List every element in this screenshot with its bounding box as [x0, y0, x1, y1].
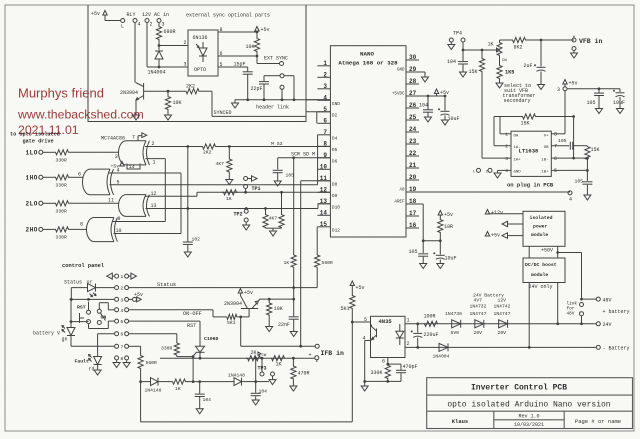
- Nano pin5-6 link: [316, 112, 318, 124]
- opto pin8 stub: [218, 27, 257, 33]
- svg-text:A0: A0: [399, 189, 405, 193]
- svg-text:1LO: 1LO: [26, 150, 38, 157]
- resistor 2K2 (M S3): [202, 144, 216, 156]
- label Status (row2): [157, 282, 176, 288]
- Nano left pins: [317, 60, 340, 234]
- svg-text:7: 7: [132, 135, 135, 141]
- watermark date: [18, 123, 79, 137]
- svg-text:10/03/2021: 10/03/2021: [514, 422, 544, 428]
- svg-text:TP1: TP1: [252, 186, 261, 192]
- capacitor 470pF: [388, 364, 418, 381]
- label control panel: [62, 263, 105, 269]
- resistor 1K (D9): [222, 190, 238, 202]
- net row6 fault: [129, 333, 177, 335]
- svg-text:680R: 680R: [164, 29, 176, 35]
- power +12v arrow: [485, 210, 523, 217]
- svg-text:24V only: 24V only: [529, 284, 553, 290]
- test point TP2: [234, 209, 249, 225]
- LT1638 pin1: [500, 132, 511, 138]
- svg-text:3: 3: [557, 87, 560, 93]
- diode 1N4004: [148, 46, 166, 76]
- svg-text:1N4732: 1N4732: [470, 304, 487, 310]
- resistor 330K: [371, 364, 391, 383]
- svg-text:5K1: 5K1: [227, 320, 236, 326]
- svg-text:2: 2: [152, 141, 155, 147]
- svg-text:+5VDC: +5VDC: [392, 93, 405, 97]
- capacitor 104 (SCR): [195, 382, 211, 409]
- svg-text:L: L: [121, 24, 124, 30]
- svg-text:104: 104: [259, 389, 268, 395]
- resistor 10K (Q1 base): [165, 91, 181, 110]
- power +5v (opto pullup): [255, 27, 270, 34]
- transistor Q2 2N3904: [224, 296, 259, 309]
- wire battery led: [70, 298, 89, 346]
- svg-text:secondary: secondary: [504, 98, 531, 104]
- gate1 in1 wire: [146, 159, 166, 222]
- ground (105 plug): [596, 109, 603, 114]
- resistor 680R: [156, 23, 175, 41]
- svg-text:CW: CW: [502, 59, 507, 63]
- gate4 in10 wire: [114, 228, 182, 234]
- svg-text:D2: D2: [332, 112, 338, 118]
- 4N35 phototransistor: [372, 325, 377, 341]
- svg-text:SCR SD M: SCR SD M: [291, 151, 315, 157]
- ground (Q1 emitter): [133, 115, 140, 120]
- diode 1N4148 (b): [228, 373, 269, 386]
- svg-text:2LO: 2LO: [26, 201, 38, 208]
- grounds row8: [113, 360, 130, 367]
- gate4 out label 8: [80, 222, 83, 228]
- svg-text:1K: 1K: [175, 386, 181, 392]
- power +5v (pin27): [434, 89, 449, 96]
- svg-text:4: 4: [138, 22, 141, 28]
- label IFB in: [321, 350, 345, 357]
- capacitor 22pF: [251, 76, 270, 100]
- svg-text:10R: 10R: [444, 224, 453, 230]
- svg-text:www.thebackshed.com: www.thebackshed.com: [17, 108, 144, 122]
- svg-text:1A+: 1A+: [514, 158, 522, 162]
- xor gate U2A: [119, 141, 150, 165]
- zener 1N4747a: [470, 298, 487, 336]
- svg-text:+5v: +5v: [244, 290, 253, 296]
- svg-text:9: 9: [118, 216, 121, 222]
- wire 4K7 commons: [266, 228, 282, 231]
- label to opto isolated: [10, 132, 60, 138]
- svg-text:1: 1: [153, 160, 156, 166]
- 4N35 pin4: [363, 336, 371, 383]
- svg-text:D6: D6: [332, 158, 338, 164]
- svg-text:330R: 330R: [56, 158, 67, 164]
- module return arrow: [502, 221, 523, 227]
- svg-text:1: 1: [505, 132, 508, 138]
- svg-text:battery V: battery V: [33, 331, 60, 337]
- label MC74AC86: [101, 136, 125, 142]
- svg-text:1N4004: 1N4004: [148, 70, 166, 76]
- svg-text:330R: 330R: [56, 209, 67, 215]
- svg-text:2K2: 2K2: [186, 84, 195, 90]
- header link pins: [264, 74, 294, 100]
- capacitor 105 (SCR SD): [273, 158, 294, 181]
- LED Fault: [75, 355, 102, 373]
- pin L (RLY coil): [121, 19, 125, 30]
- ground (sync rail): [232, 100, 239, 108]
- svg-text:100R: 100R: [424, 314, 436, 320]
- boost input wires: [528, 283, 559, 349]
- capacitor 15pF: [234, 62, 253, 100]
- svg-text:1N4004: 1N4004: [433, 354, 450, 360]
- svg-text:15K: 15K: [469, 69, 478, 75]
- resistor 560R (D12): [315, 227, 333, 288]
- svg-text:5: 5: [220, 62, 223, 68]
- power +5v (Q2): [238, 289, 253, 297]
- svg-text:10uF: 10uF: [613, 100, 625, 106]
- Nano pin29 GND wire: [406, 72, 425, 77]
- svg-text:ON-OFF: ON-OFF: [183, 311, 202, 317]
- ground (fault led): [94, 370, 101, 375]
- capacitor 105 (AREF): [409, 241, 429, 264]
- svg-text:102: 102: [192, 237, 201, 243]
- diode 1N4148 (a): [141, 378, 170, 394]
- svg-text:+5v: +5v: [356, 285, 365, 291]
- wire pin2 down: [147, 23, 159, 68]
- ground (104 VFB): [460, 72, 467, 77]
- label Atmega 168 or 328: [338, 60, 398, 67]
- capacitor 2uF: [524, 40, 546, 85]
- svg-text:330K: 330K: [371, 370, 383, 376]
- label SYNCED: [214, 110, 232, 116]
- gate2 in4 wire: [109, 168, 181, 234]
- capacitor 104 (VFB): [447, 50, 468, 72]
- net Status wire: [129, 287, 317, 289]
- svg-text:1B+: 1B+: [541, 171, 549, 175]
- capacitor 104 (5V rail): [419, 96, 433, 117]
- net +5v panel: [71, 298, 114, 301]
- switch RST: [77, 302, 91, 324]
- IC Nano box: [330, 46, 406, 237]
- pin IFB in upper: [239, 316, 319, 349]
- gate1 pin7 flag: [132, 133, 147, 141]
- wire 4N35 gnd node: [365, 381, 388, 386]
- net A0: [419, 191, 572, 203]
- svg-text:MC74AC86: MC74AC86: [101, 136, 125, 142]
- label NANO: [360, 51, 374, 58]
- svg-text:4: 4: [117, 168, 120, 174]
- svg-text:to opto isolated: to opto isolated: [10, 132, 60, 138]
- resistor 470R: [291, 358, 310, 386]
- svg-text:560R: 560R: [322, 260, 333, 266]
- svg-text:gn: gn: [62, 337, 68, 343]
- svg-text:on plug in PCB: on plug in PCB: [507, 182, 554, 189]
- svg-text:V+: V+: [544, 135, 549, 139]
- svg-text:7: 7: [120, 344, 123, 350]
- svg-text:Page # or name: Page # or name: [575, 418, 621, 425]
- resistor 560R (panel): [138, 346, 157, 383]
- title Inverter Control PCB: [471, 384, 567, 393]
- svg-text:2: 2: [150, 22, 153, 28]
- svg-text:330R: 330R: [161, 346, 172, 352]
- pin EXT SYNC: [280, 62, 284, 66]
- svg-text:+5v: +5v: [91, 11, 100, 17]
- ground (105): [274, 181, 281, 186]
- svg-text:NANO: NANO: [360, 51, 374, 58]
- svg-text:gate drive: gate drive: [23, 139, 54, 145]
- label 12V AC in: [142, 12, 169, 18]
- wire RST bottom: [89, 324, 109, 329]
- svg-text:RST: RST: [187, 323, 196, 329]
- svg-text:+5v: +5v: [569, 81, 578, 87]
- label SCR SD M: [291, 151, 315, 157]
- svg-text:control panel: control panel: [62, 263, 105, 269]
- label 24V Battery: [473, 292, 504, 298]
- LED Status: [71, 284, 114, 297]
- svg-text:VFB in: VFB in: [579, 38, 603, 45]
- svg-text:6: 6: [554, 156, 557, 162]
- svg-text:GND: GND: [397, 69, 405, 73]
- svg-text:3: 3: [184, 62, 187, 68]
- 4N35 pin1: [405, 318, 596, 324]
- svg-text:8: 8: [80, 222, 83, 228]
- power +5v (RLY): [91, 11, 121, 21]
- svg-text:20V: 20V: [474, 330, 483, 336]
- resistor 15K (feedback): [500, 114, 575, 134]
- svg-text:module: module: [531, 272, 548, 278]
- ground (104 IFB): [252, 400, 259, 405]
- svg-text:1K: 1K: [488, 42, 494, 48]
- pin 1HO: [26, 175, 43, 182]
- svg-text:6: 6: [120, 332, 123, 338]
- svg-text:5: 5: [554, 168, 557, 174]
- svg-text:+5v: +5v: [444, 212, 453, 218]
- ground (4K7 pair): [270, 231, 277, 236]
- resistor 330R (2LO): [43, 201, 119, 215]
- svg-text:6V0: 6V0: [451, 330, 460, 336]
- svg-text:6: 6: [220, 51, 223, 57]
- svg-text:105: 105: [587, 100, 596, 106]
- 4N35 pin5: [352, 317, 370, 323]
- svg-text:8K2: 8K2: [514, 45, 523, 51]
- SCR gate wire: [177, 353, 196, 358]
- wire pot to diode line: [255, 358, 257, 381]
- svg-text:10K: 10K: [173, 100, 182, 106]
- svg-text:D5: D5: [332, 147, 338, 153]
- resistor 2K2 (sync): [185, 84, 200, 94]
- svg-text:24V: 24V: [603, 322, 612, 328]
- svg-text:SYNCED: SYNCED: [214, 110, 232, 116]
- svg-text:5K1: 5K1: [341, 306, 350, 312]
- SCR C106D: [196, 336, 219, 360]
- switch ON: [97, 303, 106, 325]
- svg-text:8: 8: [220, 27, 223, 33]
- DC/DC boost module: [523, 258, 565, 283]
- test point TP3: [258, 366, 275, 380]
- watermark URL: [17, 108, 144, 122]
- svg-text:external sync optional parts: external sync optional parts: [186, 13, 270, 19]
- svg-text:330R: 330R: [56, 235, 67, 241]
- svg-text:15K: 15K: [521, 121, 530, 127]
- svg-text:4: 4: [569, 197, 572, 203]
- svg-text:1K: 1K: [284, 260, 290, 266]
- resistor 4K7 (D9 pulldown): [279, 192, 284, 228]
- svg-text:1N4148: 1N4148: [145, 388, 162, 394]
- svg-text:D9: D9: [332, 193, 338, 199]
- power +5v arrow (module): [485, 232, 523, 239]
- svg-text:2uF: 2uF: [524, 63, 533, 69]
- LT1638 pin5: [551, 168, 589, 174]
- net D10 (TP2): [245, 204, 331, 210]
- svg-text:1B-: 1B-: [541, 158, 548, 162]
- ground (10uF AREF): [437, 264, 444, 269]
- pin IFB in lower: [309, 353, 319, 363]
- svg-text:48V: 48V: [603, 297, 612, 303]
- ground (1K5): [496, 83, 503, 88]
- svg-text:13: 13: [151, 203, 157, 209]
- svg-text:1K5: 1K5: [505, 70, 514, 76]
- net SCR cathode rail: [160, 357, 315, 360]
- capacitor 220uF: [411, 324, 439, 349]
- svg-text:220uF: 220uF: [424, 332, 439, 338]
- svg-text:104: 104: [419, 103, 428, 109]
- title block frame: [427, 378, 633, 429]
- svg-text:3: 3: [115, 154, 118, 160]
- svg-text:2: 2: [407, 341, 410, 347]
- title Klaus: [452, 418, 469, 425]
- svg-text:560R: 560R: [146, 360, 157, 366]
- svg-text:8: 8: [554, 132, 557, 138]
- capacitor 105 (opamp): [558, 138, 587, 150]
- resistor 1K (IFB): [271, 356, 285, 368]
- gate3 out label 11: [108, 198, 114, 204]
- wire status led return: [70, 288, 73, 301]
- svg-text:Rev 1.0: Rev 1.0: [518, 414, 539, 420]
- LED battery V: [33, 326, 75, 343]
- power +5v (LT1638): [563, 80, 578, 87]
- optocoupler U1 6N136: [188, 30, 218, 76]
- label 24V only: [529, 284, 553, 290]
- ground (4K7): [226, 176, 233, 185]
- svg-text:OPTO: OPTO: [194, 67, 206, 73]
- pin VFB gnd: [572, 47, 576, 54]
- xor gate U2C: [87, 218, 118, 242]
- svg-text:power: power: [533, 225, 548, 230]
- pin 1LO: [26, 150, 43, 157]
- svg-text:Klaus: Klaus: [452, 418, 469, 425]
- svg-text:104: 104: [203, 397, 212, 403]
- svg-text:2HO: 2HO: [26, 227, 38, 234]
- pin 2HO: [26, 227, 43, 234]
- wire ON top: [99, 303, 114, 310]
- resistor 1K5: [497, 58, 514, 83]
- pot 2K (IFB): [246, 350, 267, 361]
- svg-text:20V: 20V: [498, 330, 507, 336]
- svg-text:GND: GND: [332, 101, 340, 107]
- net SCR SD vertical: [284, 158, 297, 299]
- plug pins 1 2: [473, 168, 492, 174]
- resistor 330R (1HO): [43, 175, 83, 189]
- gate1 in2 wire: [145, 141, 188, 147]
- svg-text:105: 105: [286, 173, 295, 179]
- test point TP4: [449, 31, 465, 52]
- svg-text:Fault: Fault: [75, 359, 90, 365]
- wire 2K2 to D5: [216, 145, 330, 148]
- ground (TP4): [448, 45, 455, 50]
- power +5v (row3): [129, 292, 143, 302]
- resistor 100R: [416, 314, 438, 327]
- svg-text:10uF: 10uF: [445, 256, 457, 262]
- pin 4 (RLY): [133, 19, 141, 28]
- svg-text:2: 2: [120, 286, 123, 292]
- gate2 out label 6: [78, 172, 81, 178]
- test point TP1: [244, 185, 261, 194]
- link pins: [567, 302, 584, 326]
- title Rev: [518, 414, 539, 420]
- svg-text:1HO: 1HO: [26, 175, 38, 182]
- svg-text:D12: D12: [332, 227, 340, 233]
- power +5v (AREF): [438, 211, 453, 220]
- svg-text:4K7: 4K7: [216, 161, 225, 167]
- wire D8 to IFB node: [299, 181, 330, 348]
- wire 680R to opto pin2: [158, 40, 188, 47]
- svg-text:+5v: +5v: [261, 27, 270, 33]
- resistor 1K (fault line): [170, 379, 234, 392]
- svg-text:4: 4: [505, 168, 508, 174]
- svg-text:7: 7: [554, 144, 557, 150]
- ground (TP2): [243, 225, 250, 230]
- LT1638 pin7: [551, 144, 569, 150]
- svg-text:48V: 48V: [567, 312, 575, 317]
- test point arrow: [244, 176, 257, 182]
- pin 2 (12V AC): [145, 19, 153, 28]
- pin 48V: [580, 297, 611, 303]
- opto pin3 label: [184, 62, 187, 68]
- svg-text:1N4747: 1N4747: [470, 311, 487, 317]
- svg-text:15pF: 15pF: [234, 62, 246, 68]
- svg-text:24V Battery: 24V Battery: [473, 292, 504, 298]
- resistor 8K2: [500, 37, 575, 50]
- svg-text:RLY: RLY: [127, 12, 136, 18]
- wire Q2 emitter net: [259, 298, 295, 301]
- ground (104): [425, 117, 432, 122]
- svg-text:4K7: 4K7: [269, 216, 278, 222]
- svg-text:1K: 1K: [276, 362, 282, 368]
- svg-text:1: 1: [120, 274, 123, 280]
- ground (22nF): [290, 332, 297, 337]
- svg-text:1A-: 1A-: [514, 146, 521, 150]
- ground (10uF plug): [617, 109, 624, 114]
- opto pin6 stub: [218, 51, 257, 57]
- svg-text:12: 12: [151, 191, 157, 197]
- svg-text:1N4747: 1N4747: [494, 311, 511, 317]
- module to boost wires: [529, 246, 581, 299]
- svg-text:OA: OA: [514, 135, 519, 139]
- ground (10uF): [442, 120, 449, 125]
- svg-text:Atmega 168 or 328: Atmega 168 or 328: [338, 60, 398, 67]
- LT1638 pin2: [494, 117, 511, 150]
- svg-text:TP4: TP4: [453, 31, 462, 37]
- ground (105 AREF): [420, 264, 427, 269]
- diode 1N4004 (battery): [433, 343, 450, 359]
- pin 24V: [596, 322, 611, 328]
- svg-text:470pF: 470pF: [403, 364, 418, 370]
- capacitor 104 (IFB): [251, 382, 267, 400]
- svg-text:2K2: 2K2: [203, 150, 212, 156]
- capacitor 10uF (5v plug): [613, 89, 625, 109]
- capacitor 22nF: [278, 299, 299, 331]
- gate1 vcc notch: [111, 162, 141, 171]
- ground (2uF): [538, 85, 545, 90]
- net D9 (TP1): [222, 191, 330, 194]
- resistor 10R: [423, 219, 453, 242]
- svg-text:470R: 470R: [298, 371, 310, 377]
